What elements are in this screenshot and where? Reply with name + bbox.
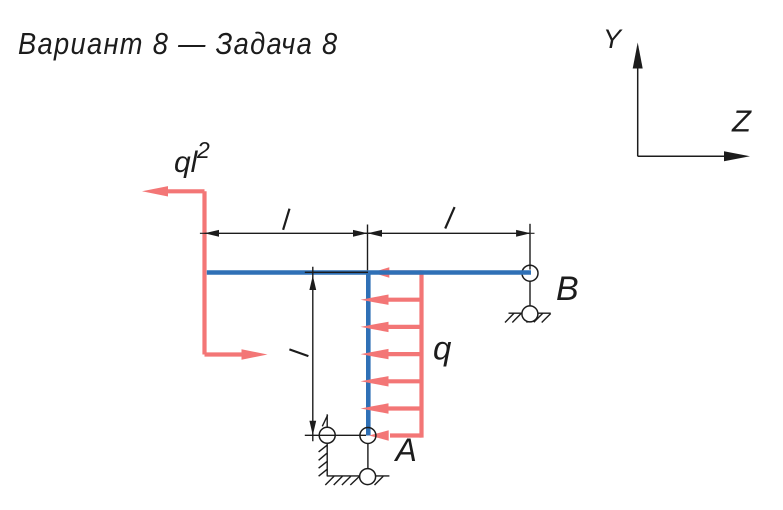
svg-text:B: B: [556, 270, 579, 308]
hinge circle A3 (bottom roller): [360, 469, 376, 485]
load arrow 7: [390, 433, 422, 437]
ground hatch at support A: [325, 476, 389, 485]
wall line + hatch at support A: [319, 414, 328, 476]
label l (right span): [445, 207, 454, 228]
extension at A level: [305, 434, 366, 436]
moment ql^2 (red couple): [142, 186, 268, 360]
title: Вариант 8 – Задача 8: [18, 27, 338, 61]
load arrow 2: [386, 298, 422, 302]
svg-text:A: A: [394, 432, 417, 468]
load edge line: [419, 270, 423, 437]
label l (vertical span, rotated): [289, 349, 308, 356]
svg-text:Вариант 8 — Задача 8: Вариант 8 — Задача 8: [18, 27, 338, 61]
load arrow 6: [386, 406, 422, 410]
Z axis: [638, 155, 746, 157]
Y axis: [637, 46, 639, 156]
load arrow 3: [386, 325, 422, 329]
svg-text:Y: Y: [603, 24, 623, 54]
vertical dimension l: [305, 267, 368, 442]
hinge circle B2 (base of pendulum B): [522, 306, 538, 322]
circle strokes A2 A1 B1: [319, 427, 335, 443]
ground hatch at support B: [505, 313, 551, 322]
horizontal beam (blue): [207, 270, 531, 275]
svg-text:2: 2: [196, 137, 210, 163]
extension line at B: [529, 224, 531, 270]
load arrow 1: [387, 270, 422, 274]
dimension line l + l (horizontal): [200, 224, 535, 270]
vertical beam (blue column): [366, 273, 371, 436]
load arrow 4: [386, 352, 422, 356]
coordinate axes: [633, 43, 750, 162]
load arrow 5: [386, 379, 422, 383]
distributed load q (red): [361, 267, 422, 440]
svg-text:Z: Z: [731, 104, 752, 139]
extension line at column: [367, 225, 369, 271]
extension at beam level: [305, 271, 368, 273]
circle fills A1 A2 B1: [319, 427, 335, 443]
label l (left span): [283, 209, 289, 230]
link A1-A3: [367, 444, 369, 469]
svg-text:ql: ql: [174, 146, 199, 179]
svg-text:q: q: [433, 330, 452, 367]
link B1-B2: [529, 281, 531, 306]
